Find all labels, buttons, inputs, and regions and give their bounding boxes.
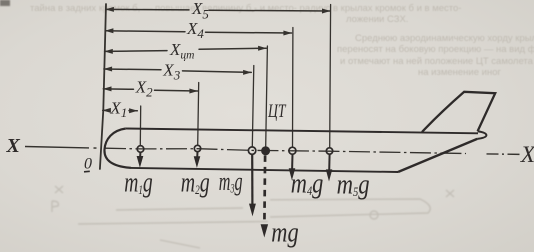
svg-text:mg: mg [271,217,298,248]
svg-text:ложении СЗХ.: ложении СЗХ. [346,14,408,25]
svg-text:Среднюю аэродинамическую хорду: Среднюю аэродинамическую хорду крыла [355,33,534,44]
svg-text:тайна в задних кромок б, — пов: тайна в задних кромок б, — повышает вели… [30,3,461,14]
svg-text:переносят на боковую проекцию: переносят на боковую проекцию — на вид ф… [337,44,534,55]
svg-text:X: X [6,135,21,157]
svg-text:на изменение иног: на изменение иног [418,67,501,78]
svg-text:и отмечают на ней положение ЦТ: и отмечают на ней положение ЦТ самолета [340,56,534,67]
svg-text:0: 0 [84,156,92,173]
svg-text:X: X [520,142,534,168]
svg-text:ЦТ: ЦТ [267,100,287,122]
